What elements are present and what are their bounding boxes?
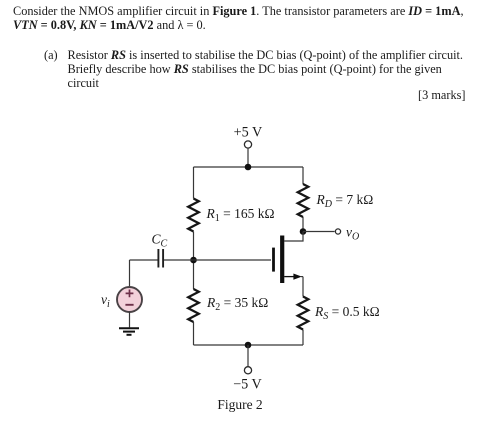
resistor R1 xyxy=(188,199,199,232)
wire top rail to RD xyxy=(302,167,304,184)
svg-text:vO: vO xyxy=(346,225,359,243)
vO terminal xyxy=(335,229,340,234)
R2 value label xyxy=(206,295,268,313)
ground xyxy=(119,328,139,335)
junction dot drain node xyxy=(300,228,307,235)
junction dot at -5V node xyxy=(245,342,252,349)
wire RS to bottom rail xyxy=(302,330,304,346)
svg-text:R2 = 35 kΩ: R2 = 35 kΩ xyxy=(206,295,268,313)
junction dot at +5V node xyxy=(245,164,252,171)
junction dot gate node xyxy=(190,257,197,264)
svg-text:RD = 7 kΩ: RD = 7 kΩ xyxy=(316,192,374,210)
wire gate node to transistor gate xyxy=(194,259,272,261)
vi minus sign xyxy=(125,304,133,306)
vO label xyxy=(346,225,359,243)
svg-text:vi: vi xyxy=(101,292,110,310)
resistor RD xyxy=(298,184,309,217)
-5 V supply label xyxy=(233,377,262,393)
wire RD to drain node xyxy=(302,217,304,232)
transistor Q1 channel bar xyxy=(280,236,284,284)
wire transistor source to RS xyxy=(301,277,303,297)
svg-text:CC: CC xyxy=(152,232,168,250)
wire vi to CC left plate xyxy=(130,259,158,261)
top rail wire xyxy=(194,166,304,168)
wire top rail to R1 xyxy=(193,167,195,199)
wire R2 to bottom rail xyxy=(193,322,195,345)
resistor R2 xyxy=(188,289,199,322)
capacitor CC plates xyxy=(158,249,163,268)
-5 V terminal xyxy=(244,367,251,374)
RS value label xyxy=(314,304,380,322)
+5 V supply label xyxy=(234,125,263,141)
vi plus sign xyxy=(126,290,134,298)
wire drain node to transistor drain xyxy=(284,232,303,242)
RD value label xyxy=(316,192,374,210)
svg-text:R1 = 165 kΩ: R1 = 165 kΩ xyxy=(206,206,275,224)
wire R1 to R2 (gate node rail) xyxy=(193,232,195,290)
svg-text:−5 V: −5 V xyxy=(233,377,262,393)
svg-text:RS = 0.5 kΩ: RS = 0.5 kΩ xyxy=(314,304,380,322)
capacitor CC label xyxy=(152,232,168,250)
Figure 2 caption xyxy=(217,397,262,412)
svg-text:Figure 2: Figure 2 xyxy=(217,397,262,412)
wire drain node to vO terminal xyxy=(303,231,335,233)
problem statement line 1-2 xyxy=(13,4,483,33)
svg-text:+5 V: +5 V xyxy=(234,125,263,141)
wire from +5V terminal to top rail xyxy=(247,148,249,167)
bottom rail wire xyxy=(194,344,304,346)
wire CC right plate to gate node xyxy=(164,259,194,261)
part (a) text xyxy=(44,48,474,91)
wire bottom rail to -5V terminal xyxy=(247,345,249,367)
vi label xyxy=(101,292,110,310)
+5 V terminal xyxy=(244,141,251,148)
transistor Q1 gate bar xyxy=(272,248,275,272)
wire vi to ground xyxy=(129,312,131,327)
wire down to vi source xyxy=(129,260,131,287)
resistor RS xyxy=(298,297,309,330)
transistor Q1 source lead with arrow xyxy=(284,274,302,280)
source vi circle xyxy=(117,287,142,312)
marks label xyxy=(0,88,466,103)
R1 value label xyxy=(206,206,275,224)
